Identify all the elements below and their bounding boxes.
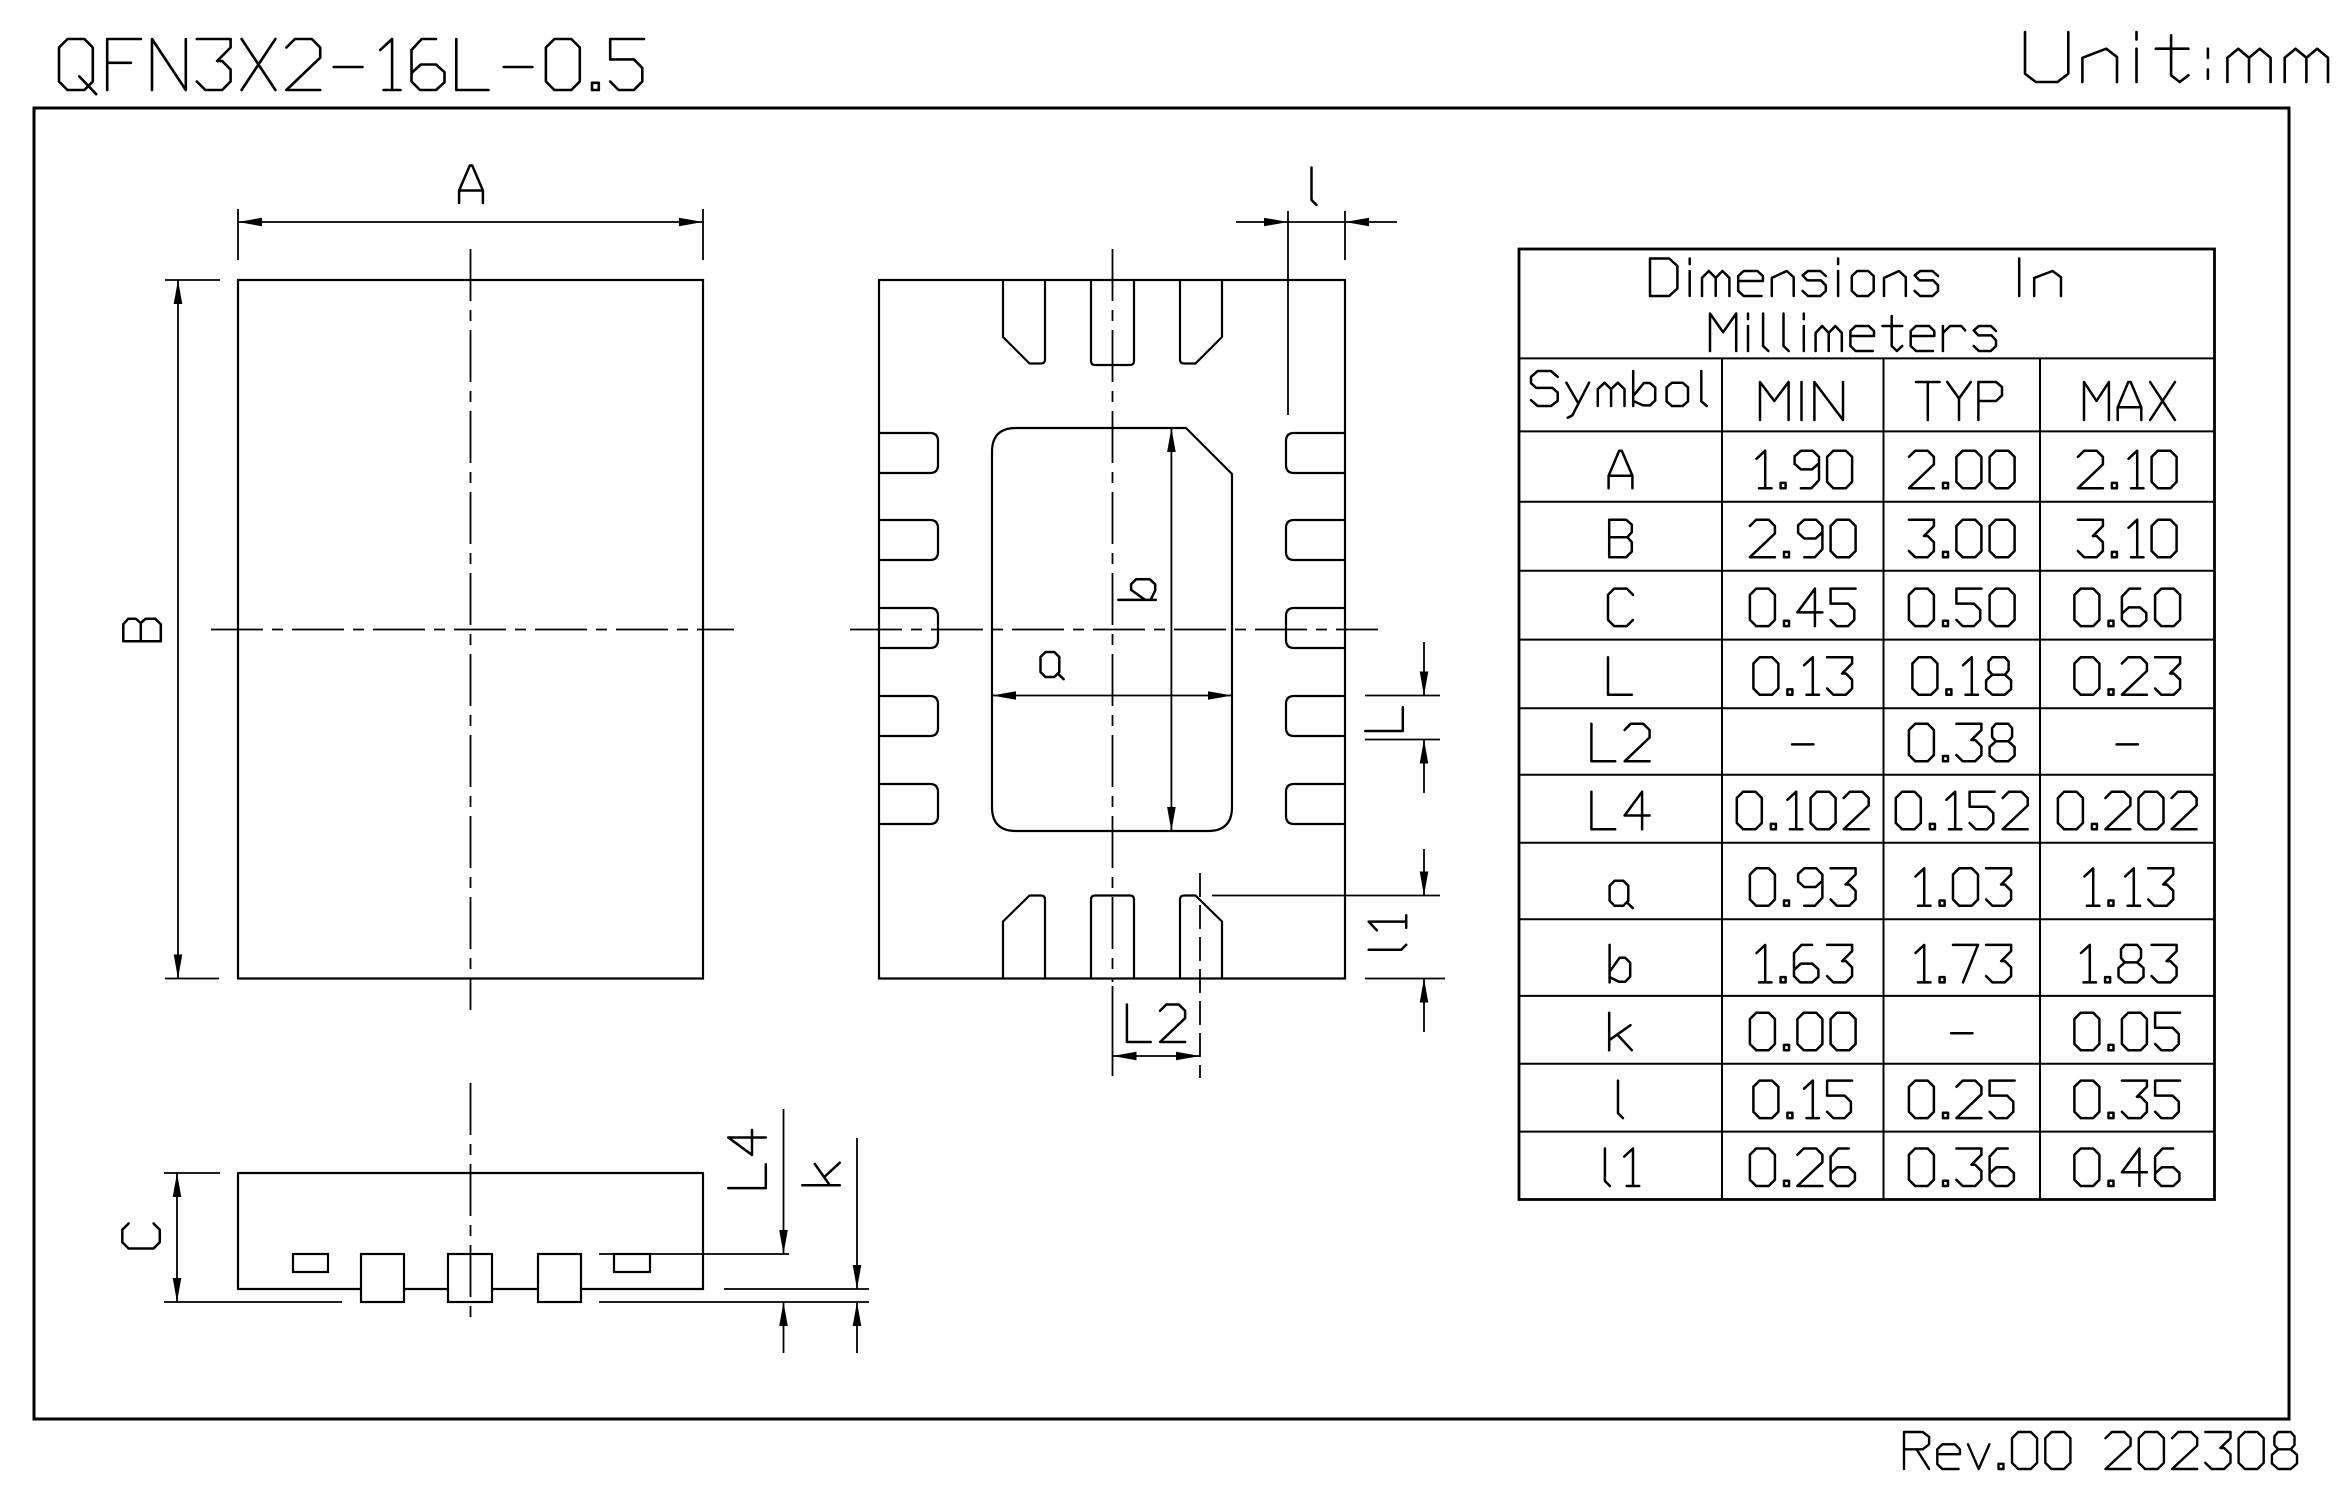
dim l1 label [1369, 915, 1407, 949]
table column lines [1722, 358, 2040, 1199]
dim A extension line left [237, 209, 239, 260]
seating plane line left [164, 1301, 342, 1303]
dim L4 arrow bottom [779, 1302, 788, 1326]
dim k dimension line top [856, 1138, 858, 1289]
top view package outline [238, 280, 703, 979]
dim k arrow top [853, 1265, 862, 1289]
dim L4 dimension line top [783, 1109, 785, 1254]
dim l1 arrow bottom [1420, 979, 1429, 1003]
dim l dimension line left [1236, 221, 1288, 223]
dim a arrow right [1208, 691, 1232, 700]
dim L2 dimension line [1113, 1055, 1201, 1057]
table column headers [1531, 371, 1707, 418]
table row L2 [1591, 724, 1649, 762]
revision note Rev.00 202308 [1904, 1432, 2297, 1469]
pin pad bottom-right [1180, 896, 1222, 979]
dim L4 arrow top [779, 1230, 788, 1254]
dim A dimension line [238, 221, 703, 223]
table header Millimeters [1710, 314, 1996, 352]
dim L2 label [1127, 1005, 1185, 1043]
pin pad bottom-left [1003, 896, 1045, 979]
dim C label [122, 1224, 160, 1249]
dim L arrow bottom [1420, 740, 1429, 764]
table row a [1610, 881, 1633, 908]
pin pad left-1 [879, 433, 938, 473]
dim B arrow top [174, 280, 183, 304]
dim L4 dimension line bottom [783, 1302, 785, 1353]
table row L4 [1591, 792, 1649, 830]
terminal pad inset right [614, 1254, 650, 1272]
pin pad right-3 [1286, 608, 1345, 648]
pin pad top-center [1091, 280, 1134, 365]
k reference line [724, 1288, 869, 1290]
dim a label [1041, 652, 1064, 679]
dim L2 arrow left [1113, 1052, 1137, 1061]
dim B dimension line [177, 280, 179, 979]
dim b label [1118, 579, 1156, 600]
dim L extension line top [1365, 695, 1440, 697]
dim l extension line left [1287, 211, 1289, 415]
bottom view package outline [879, 280, 1345, 979]
pin pad top-right [1180, 280, 1222, 364]
table row B [1609, 520, 1632, 558]
table row k [1609, 1013, 1632, 1050]
dim L extension line bottom [1365, 739, 1440, 741]
dim B label [123, 619, 161, 642]
dim l arrow right [1345, 218, 1369, 227]
terminal top reference line L4 [599, 1253, 789, 1255]
dim B arrow bottom [174, 955, 183, 979]
table header Dimensions In [1650, 259, 1938, 297]
terminal pad inset left [293, 1254, 328, 1272]
side view body bottom edge [238, 1288, 703, 1290]
dim B tick bottom [165, 978, 219, 980]
terminal pad side-2 [448, 1254, 492, 1302]
table outer border [1519, 249, 2215, 1200]
dim C arrow top [173, 1173, 182, 1197]
dim l label [1312, 168, 1317, 206]
dim L2 extension line center [1112, 986, 1114, 1076]
pin pad right-1 [1286, 433, 1345, 473]
dim k label [802, 1163, 840, 1186]
pin pad right-4 [1286, 696, 1345, 736]
dim L dimension line bottom [1423, 740, 1425, 794]
side view vertical centerline [470, 1083, 472, 1318]
pin pad left-3 [879, 608, 938, 648]
dim A arrow left [238, 218, 262, 227]
dim C tick top [164, 1172, 220, 1174]
dim L4 label [728, 1130, 766, 1188]
table row l1 [1605, 1149, 1639, 1187]
dim A extension line right [702, 209, 704, 260]
table row lines [1519, 358, 2215, 1131]
dim a dimension line [992, 695, 1232, 697]
dim L label [1365, 707, 1403, 731]
dim l1 dimension line top [1423, 849, 1425, 896]
dim b dimension line [1170, 428, 1172, 831]
dim k arrow bottom [853, 1302, 862, 1326]
dim l dimension line middle [1288, 221, 1345, 223]
dim a arrow left [992, 691, 1016, 700]
dim B tick top [165, 279, 220, 281]
table row b [1610, 945, 1631, 983]
pin pad left-4 [879, 696, 938, 736]
pin pad right-2 [1286, 520, 1345, 560]
dim l1 extension line bottom [1365, 978, 1445, 980]
side view body outline [238, 1173, 703, 1289]
bottom view vertical centerline [1112, 249, 1114, 982]
dim b arrow top [1167, 428, 1176, 452]
dim k dimension line bottom [856, 1302, 858, 1353]
terminal pad side-3 [538, 1254, 581, 1302]
unit note Unit:mm [2025, 32, 2328, 82]
pin pad right-5 [1286, 784, 1345, 824]
pin pad top-left [1003, 280, 1045, 364]
dim l extension line right [1344, 211, 1346, 260]
dim b arrow bottom [1167, 807, 1176, 831]
dim l1 arrow top [1420, 872, 1429, 896]
pin pad left-5 [879, 784, 938, 824]
top view vertical centerline [470, 249, 472, 1010]
seating plane line right [599, 1301, 869, 1303]
exposed pad outline [992, 428, 1232, 831]
dim C dimension line [176, 1173, 178, 1302]
dim A arrow right [679, 218, 703, 227]
top view horizontal centerline [211, 629, 734, 631]
dim L dimension line top [1423, 642, 1425, 696]
dim A label [459, 166, 483, 204]
pin pad left-2 [879, 520, 938, 560]
dim L2 arrow right [1176, 1052, 1200, 1061]
pin pad bottom-center [1091, 896, 1134, 979]
dim l arrow left [1264, 218, 1288, 227]
terminal pad side-1 [361, 1254, 404, 1302]
table row C [1608, 589, 1633, 627]
table row A [1609, 451, 1633, 489]
table row l [1618, 1081, 1623, 1119]
bottom view horizontal centerline [850, 629, 1378, 631]
dim C arrow bottom [173, 1278, 182, 1302]
dim l1 dimension line bottom [1423, 979, 1425, 1033]
dim l dimension line right [1345, 221, 1397, 223]
dim L2 extension line right dashed [1199, 873, 1201, 1078]
table row L [1608, 657, 1632, 695]
dim L arrow top [1420, 672, 1429, 696]
dim l1 extension line top [1212, 895, 1440, 897]
drawing title QFN3X2-16L-0.5 [59, 39, 644, 94]
